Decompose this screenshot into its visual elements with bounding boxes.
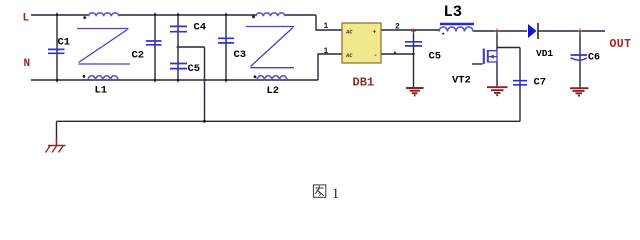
svg-text:C7: C7 [534,77,547,89]
svg-text:L: L [23,13,30,25]
svg-text:+: + [373,29,377,36]
svg-text:C3: C3 [234,49,247,61]
svg-text:L2: L2 [267,85,280,97]
svg-text:OUT: OUT [610,38,632,51]
svg-text:DB1: DB1 [353,76,375,90]
svg-text:N: N [24,58,31,70]
svg-text:1: 1 [324,22,329,31]
svg-text:C5: C5 [429,51,442,63]
svg-text:VD1: VD1 [536,48,553,59]
svg-text:C1: C1 [58,37,71,49]
svg-text:-: - [374,52,378,59]
svg-text:C2: C2 [132,50,145,62]
svg-text:C6: C6 [588,53,600,64]
svg-text:C5: C5 [188,63,201,75]
svg-text:1: 1 [332,186,340,202]
svg-text:L1: L1 [95,85,108,97]
svg-text:AC: AC [345,29,353,36]
svg-text:VT2: VT2 [452,75,471,87]
svg-text:C4: C4 [194,22,207,34]
svg-text:AC: AC [345,52,353,59]
svg-text:L3: L3 [444,3,463,21]
svg-text:1: 1 [324,47,329,56]
svg-text:2: 2 [395,23,400,32]
